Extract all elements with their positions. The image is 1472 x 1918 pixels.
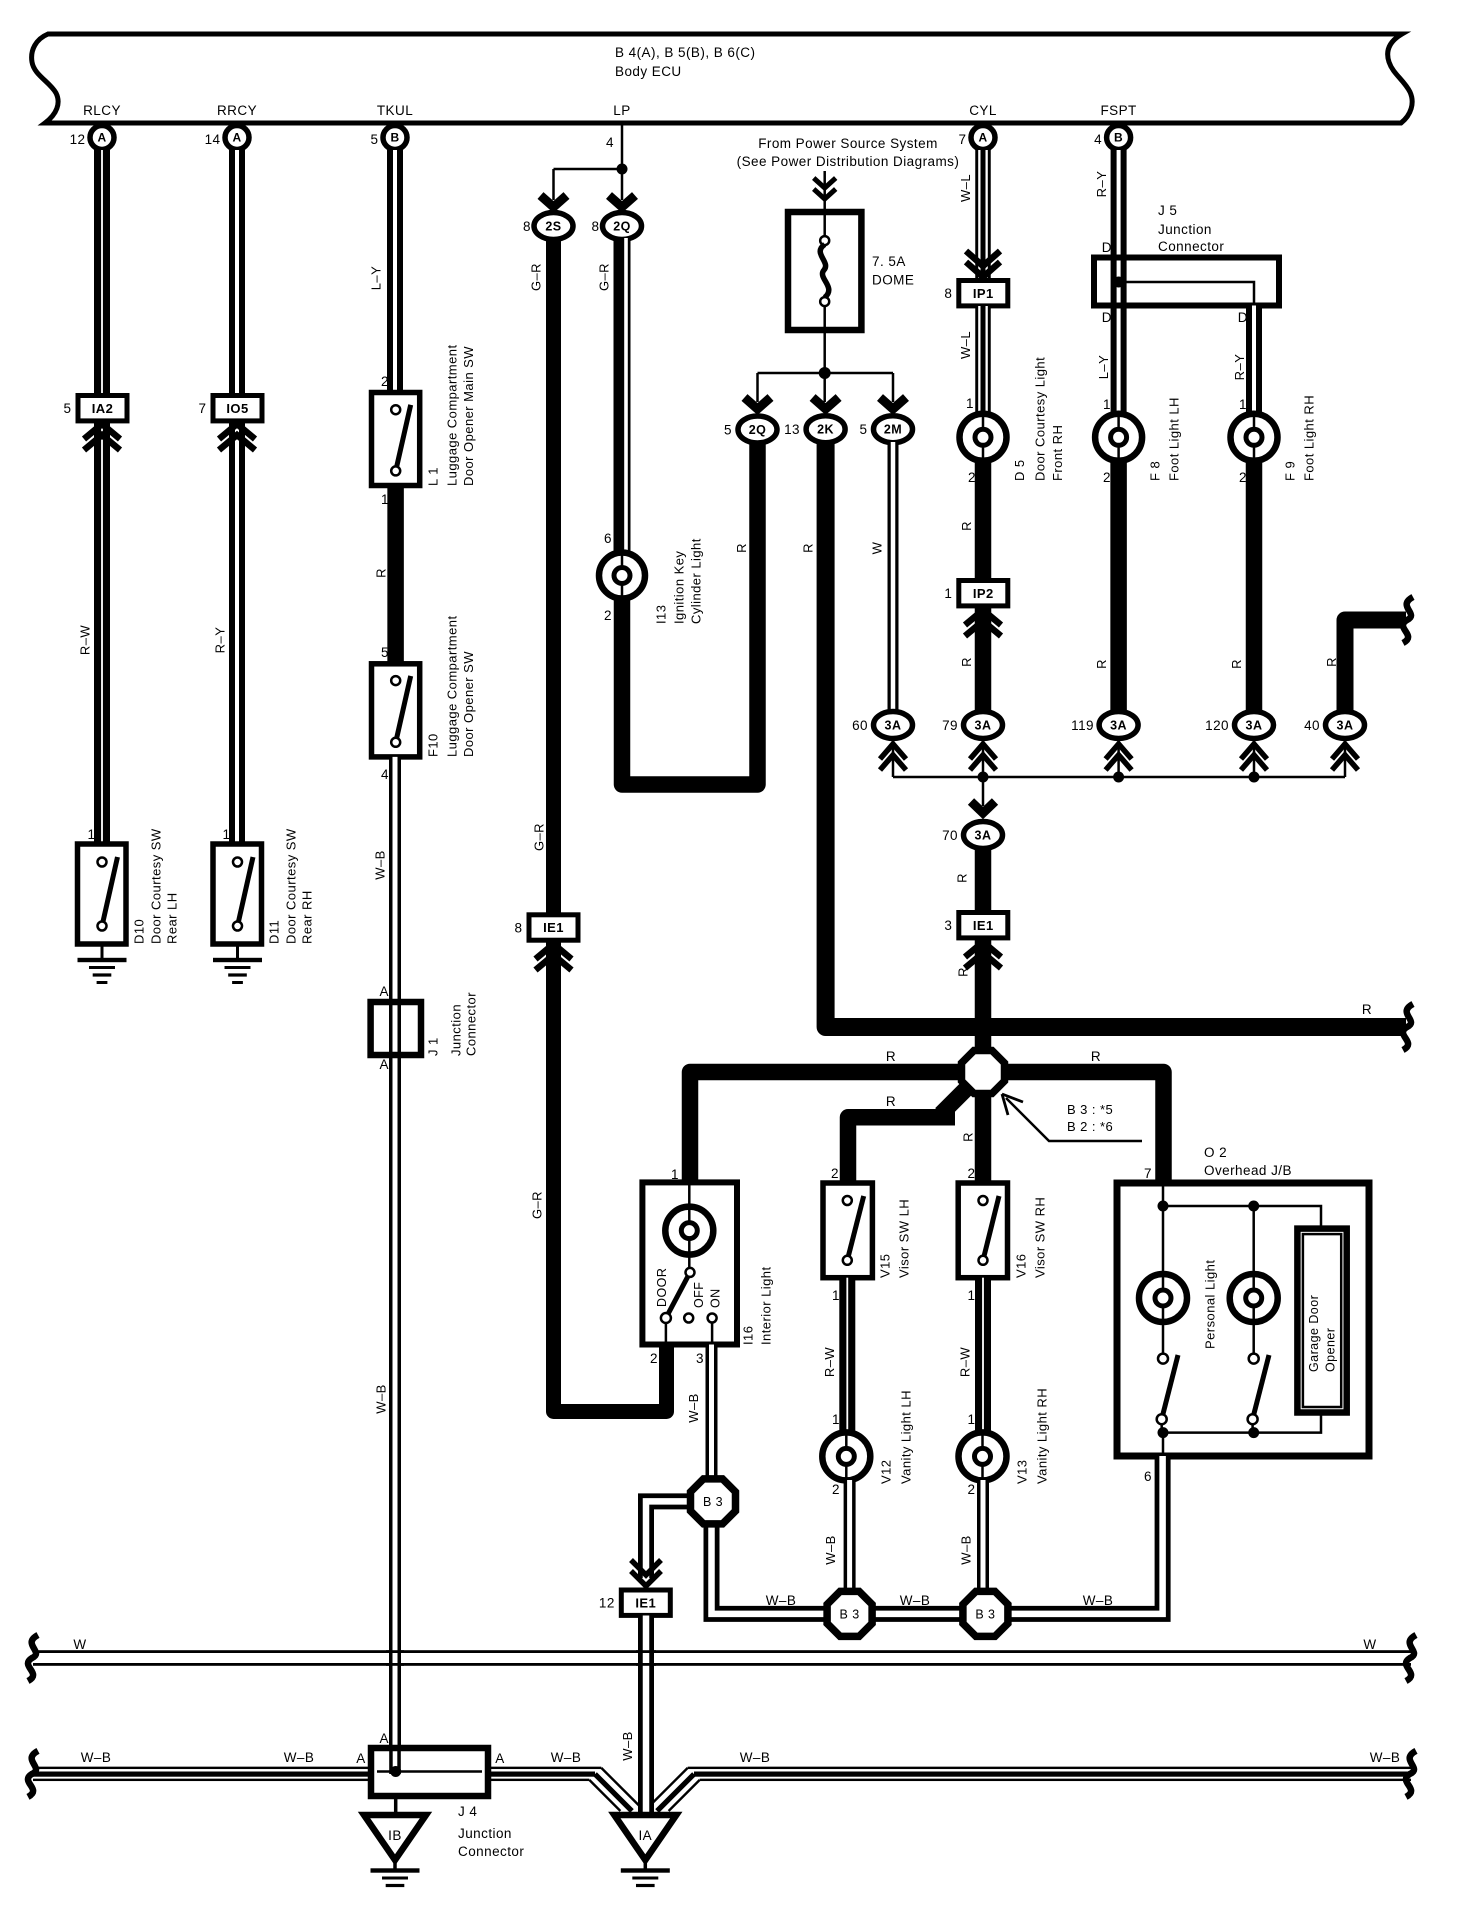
svg-text:J 1: J 1 (425, 1037, 440, 1056)
svg-text:13: 13 (784, 422, 800, 437)
wire W-B IE1 pin12 to IA (638, 1616, 654, 1814)
leader arrow to splice (1006, 1098, 1142, 1141)
svg-text:W–B: W–B (620, 1731, 635, 1761)
svg-text:Visor SW LH: Visor SW LH (896, 1199, 911, 1278)
wire LP drop (621, 125, 624, 169)
svg-text:R: R (886, 1049, 896, 1064)
svg-text:R: R (1091, 1049, 1101, 1064)
node rail dot 79 (978, 772, 989, 783)
node J4 dot (390, 1766, 401, 1777)
svg-text:F 8: F 8 (1147, 461, 1162, 481)
svg-text:2Q: 2Q (749, 423, 767, 437)
svg-text:R: R (959, 657, 974, 667)
svg-text:Rear RH: Rear RH (299, 890, 314, 944)
arrow into IO5 (219, 424, 255, 450)
arrow into IE1 pin12 (631, 1560, 661, 1586)
svg-text:2: 2 (604, 608, 612, 623)
R 40 squiggle (1403, 597, 1413, 643)
svg-text:V16: V16 (1013, 1254, 1028, 1278)
wire W-B V13 to B3 (977, 1480, 989, 1592)
connector 3A pin 120 (1235, 712, 1274, 739)
svg-text:Overhead J/B: Overhead J/B (1204, 1163, 1292, 1178)
wire D11 to ground (236, 944, 239, 960)
svg-text:B 3: B 3 (703, 1495, 723, 1509)
switch D11 Door Courtesy SW Rear RH (213, 844, 262, 944)
component I16 Interior Light box (642, 1182, 737, 1344)
svg-text:OFF: OFF (692, 1282, 706, 1308)
svg-text:Vanity Light RH: Vanity Light RH (1034, 1388, 1049, 1484)
svg-text:Connector: Connector (458, 1844, 524, 1859)
ground below D10 (78, 958, 127, 962)
svg-text:2Q: 2Q (613, 219, 631, 233)
svg-text:1: 1 (968, 1288, 976, 1303)
svg-text:ON: ON (708, 1288, 722, 1308)
lamp V12 Vanity Light LH (822, 1432, 870, 1480)
wire R F8 to 3A119 (1110, 459, 1127, 712)
switch I16 DOOR OFF ON (666, 1272, 690, 1318)
svg-text:FSPT: FSPT (1100, 103, 1136, 118)
svg-text:1: 1 (944, 586, 952, 601)
svg-text:2M: 2M (884, 423, 902, 437)
node O2 dot bottom mid (1248, 1427, 1259, 1438)
svg-text:2: 2 (1103, 470, 1111, 485)
connector 2K (806, 416, 845, 443)
svg-text:7. 5A: 7. 5A (872, 254, 906, 269)
svg-text:A: A (978, 131, 987, 145)
arrow into IE1 pin3 (965, 942, 1001, 968)
lamp D5 Door Courtesy Light Front RH (960, 414, 1007, 461)
wire J4 internal (377, 1770, 482, 1773)
svg-text:8: 8 (523, 219, 531, 234)
svg-text:F10: F10 (425, 733, 440, 757)
switch F10 Luggage Compartment Door Opener SW (372, 664, 420, 757)
svg-text:TKUL: TKUL (377, 103, 413, 118)
wire R F9 to 3A120 (1246, 459, 1263, 712)
wire O2 internal top bus (1162, 1183, 1165, 1353)
svg-text:W–B: W–B (372, 850, 387, 880)
connector 2M (874, 416, 913, 443)
svg-text:From Power Source System: From Power Source System (758, 136, 938, 151)
svg-text:D 5: D 5 (1012, 459, 1027, 481)
svg-text:IE1: IE1 (543, 920, 564, 935)
arrow from power source (814, 178, 836, 199)
wire G-R 2Q to I13 (614, 238, 631, 553)
svg-text:R: R (1362, 1002, 1372, 1017)
svg-text:R: R (1094, 659, 1109, 669)
connector 3A pin 60 (874, 712, 913, 739)
svg-text:Door Courtesy Light: Door Courtesy Light (1032, 357, 1047, 481)
svg-text:IA: IA (638, 1828, 652, 1843)
wire R 40 3A elbow (1345, 620, 1406, 712)
connector IE1 pin12 (621, 1590, 670, 1615)
svg-text:5: 5 (860, 422, 868, 437)
arrow into IP1 (966, 251, 1000, 277)
svg-text:A: A (232, 131, 241, 145)
connector 3A pin 70 (964, 822, 1003, 849)
connector IO5 (213, 396, 262, 421)
wire W-B ground rail right (688, 1767, 1411, 1769)
wire R splice lower-left branch to V15 (941, 1085, 970, 1114)
svg-text:IB: IB (388, 1828, 402, 1843)
svg-text:1: 1 (1103, 397, 1111, 412)
connector 3A pin 40 (1326, 712, 1365, 739)
component O2 Overhead J/B box (1117, 1183, 1369, 1456)
wire L-Y J5 to F8 (1111, 306, 1127, 415)
wire W-B F10 to J4 (389, 757, 401, 1747)
svg-text:Junction: Junction (448, 1004, 463, 1056)
arrow into 2Q pin5 (745, 398, 771, 410)
svg-text:1: 1 (966, 396, 974, 411)
svg-text:5: 5 (381, 645, 389, 660)
switch L1 Luggage Compartment Door Opener Main SW (372, 393, 420, 486)
wire R-W from RLCY to IA2 and D10 (94, 150, 110, 844)
arrow into IA2 (84, 424, 120, 450)
svg-text:RLCY: RLCY (83, 103, 121, 118)
arrow into 2S (541, 196, 567, 208)
arrow into 3A 119 (1106, 744, 1132, 770)
svg-text:CYL: CYL (969, 103, 997, 118)
svg-text:R: R (960, 1132, 975, 1142)
svg-text:2K: 2K (817, 423, 834, 437)
svg-text:W–L: W–L (958, 331, 973, 359)
wire D10 to ground (101, 944, 104, 960)
wire W-L IP1 to D5 (975, 306, 991, 414)
wire fuse to splice (823, 330, 826, 373)
lamp F8 Foot Light LH (1095, 414, 1142, 461)
node O2 dot top mid (1248, 1201, 1259, 1212)
svg-text:Connector: Connector (463, 992, 478, 1056)
node rail dot 120 (1249, 772, 1260, 783)
svg-text:R–W: R–W (957, 1347, 972, 1378)
lamp O2 personal light RH (1230, 1274, 1278, 1322)
svg-text:R: R (886, 1094, 896, 1109)
arrow into IE1 pin8 (536, 944, 572, 970)
node O2 dot top left (1158, 1201, 1169, 1212)
switch O2 lamp1 (1158, 1354, 1168, 1364)
svg-text:6: 6 (604, 531, 612, 546)
wire O2 lamp2 drop (1252, 1206, 1255, 1353)
svg-text:W–B: W–B (766, 1593, 797, 1608)
svg-text:W–B: W–B (900, 1593, 931, 1608)
svg-text:IE1: IE1 (635, 1595, 656, 1610)
svg-text:Junction: Junction (458, 1826, 512, 1841)
wire patch W rail at IE1 wire (636, 1650, 656, 1653)
svg-text:IO5: IO5 (226, 401, 248, 416)
svg-text:D10: D10 (131, 919, 146, 944)
wire R-Y J5 to F9 (1246, 306, 1262, 415)
svg-text:7: 7 (959, 132, 967, 147)
wire R-Y from RRCY to IO5 and D11 (229, 150, 245, 844)
svg-text:W–L: W–L (958, 174, 973, 202)
lamp I16 interior (665, 1207, 713, 1255)
wire J5 internal (1119, 282, 1254, 306)
node O2 dot bottom left (1158, 1427, 1169, 1438)
svg-text:A: A (97, 131, 106, 145)
svg-text:Foot Light RH: Foot Light RH (1301, 395, 1316, 481)
pin 4 circle B FSPT (1107, 126, 1131, 150)
wire R splice right branch to O2 (1007, 1072, 1164, 1183)
arrow into 3A 40 (1332, 744, 1358, 770)
svg-text:RRCY: RRCY (217, 103, 257, 118)
wire R IP2 to 3A79 (975, 606, 992, 712)
svg-text:Connector: Connector (1158, 239, 1224, 254)
wire G-R 2S down to interior light (554, 238, 667, 1412)
svg-text:1: 1 (88, 827, 96, 842)
wire stub below 3A 40 (1344, 738, 1347, 777)
svg-text:R: R (734, 543, 749, 553)
wire rail to 3A70 (982, 777, 985, 806)
wire I16 pins internal (666, 1322, 712, 1345)
component Garage Door Opener box (1297, 1229, 1346, 1413)
svg-text:8: 8 (515, 921, 523, 936)
lamp F9 Foot Light RH (1231, 414, 1278, 461)
svg-text:B: B (390, 131, 399, 145)
svg-text:12: 12 (599, 1596, 615, 1611)
svg-text:A: A (356, 1751, 365, 1766)
splice B3 right (963, 1591, 1008, 1636)
svg-text:IE1: IE1 (973, 918, 994, 933)
wire 3A common rail (893, 776, 1345, 779)
connector 3A pin 79 (964, 712, 1003, 739)
svg-text:B 3 : *5: B 3 : *5 (1067, 1102, 1113, 1117)
wire O2 internal bottom bus (1162, 1424, 1253, 1433)
connector IP1 (959, 281, 1008, 306)
svg-text:A: A (380, 1731, 389, 1746)
svg-text:B 4(A), B 5(B), B 6(C): B 4(A), B 5(B), B 6(C) (615, 45, 755, 60)
wire R D5 to IP2 (975, 459, 992, 581)
svg-text:IP2: IP2 (973, 586, 994, 601)
svg-text:3A: 3A (885, 718, 902, 732)
svg-text:Garage Door: Garage Door (1307, 1295, 1321, 1372)
svg-text:G–R: G–R (596, 263, 611, 291)
svg-text:R: R (959, 521, 974, 531)
svg-text:Personal Light: Personal Light (1202, 1260, 1217, 1349)
svg-text:Door Courtesy SW: Door Courtesy SW (148, 828, 163, 944)
svg-text:W: W (73, 1637, 86, 1652)
svg-text:Front RH: Front RH (1050, 425, 1065, 481)
node fuse branch dot (819, 367, 831, 379)
svg-text:L–Y: L–Y (368, 266, 383, 290)
svg-text:B: B (1114, 131, 1123, 145)
svg-text:G–R: G–R (529, 1191, 544, 1219)
svg-text:Door Opener SW: Door Opener SW (461, 651, 476, 757)
svg-text:14: 14 (205, 132, 221, 147)
wire W-B I16 pin3 to B3 (706, 1345, 718, 1479)
svg-text:3: 3 (696, 1351, 704, 1366)
svg-text:LP: LP (613, 103, 630, 118)
svg-text:1: 1 (223, 827, 231, 842)
svg-text:V15: V15 (877, 1254, 892, 1278)
svg-text:B 2 : *6: B 2 : *6 (1067, 1119, 1113, 1134)
splice B3 upper (691, 1479, 736, 1524)
svg-text:Foot Light LH: Foot Light LH (1166, 397, 1181, 481)
wire R 2K elbow to right edge (826, 442, 1406, 1027)
connector IE1 pin3 (959, 913, 1008, 938)
svg-text:R: R (373, 568, 388, 578)
W rail right squiggle (1406, 1635, 1416, 1681)
svg-text:L 1: L 1 (425, 467, 440, 486)
wire patch W rail at TKUL (386, 1650, 404, 1653)
arrow into 3A 60 (880, 744, 906, 770)
svg-text:Vanity Light LH: Vanity Light LH (898, 1390, 913, 1484)
pin 12 circle A RLCY (90, 126, 114, 150)
svg-text:2S: 2S (545, 219, 561, 233)
svg-text:Body ECU: Body ECU (615, 64, 682, 79)
svg-text:8: 8 (592, 219, 600, 234)
svg-text:R–Y: R–Y (1094, 171, 1109, 198)
svg-text:I13: I13 (653, 605, 668, 624)
svg-text:DOME: DOME (872, 273, 914, 288)
svg-text:3A: 3A (1110, 718, 1127, 732)
lamp V13 Vanity Light RH (959, 1432, 1007, 1480)
svg-text:B 3: B 3 (975, 1607, 995, 1621)
svg-text:Luggage Compartment: Luggage Compartment (444, 344, 459, 486)
W-B rail left squiggle (28, 1751, 38, 1797)
svg-text:W–B: W–B (1083, 1593, 1114, 1608)
svg-text:1: 1 (1239, 397, 1247, 412)
svg-text:2: 2 (832, 1482, 840, 1497)
wire fuse branch (758, 373, 894, 402)
wire from power source (823, 171, 826, 212)
svg-text:Junction: Junction (1158, 222, 1212, 237)
svg-text:1: 1 (968, 1412, 976, 1427)
wire W-B ground rail left (33, 1767, 601, 1769)
ground below IA (644, 1858, 648, 1870)
connector IE1 pin8 (529, 915, 578, 940)
svg-text:Door Opener Main SW: Door Opener Main SW (461, 346, 476, 486)
svg-text:4: 4 (381, 767, 389, 782)
wire stub below 3A 119 (1117, 738, 1120, 777)
svg-text:G–R: G–R (528, 263, 543, 291)
svg-text:DOOR: DOOR (655, 1268, 669, 1307)
svg-text:4: 4 (1094, 132, 1102, 147)
switch O2 lamp2 (1249, 1354, 1259, 1364)
svg-text:W–B: W–B (373, 1384, 388, 1414)
svg-text:Rear LH: Rear LH (164, 892, 179, 944)
svg-text:W–B: W–B (1370, 1750, 1401, 1765)
wire J4 to IB (394, 1796, 398, 1815)
connector 2Q (603, 213, 642, 240)
svg-text:2: 2 (650, 1351, 658, 1366)
svg-text:W–B: W–B (81, 1750, 112, 1765)
svg-text:R: R (1324, 657, 1339, 667)
svg-text:120: 120 (1205, 718, 1229, 733)
svg-text:2: 2 (831, 1166, 839, 1181)
svg-text:IP1: IP1 (973, 286, 994, 301)
svg-text:79: 79 (942, 718, 958, 733)
wire R I13 to 2Q pin5 (622, 442, 758, 785)
wire W 2M to 3A (888, 442, 899, 712)
svg-text:O 2: O 2 (1204, 1145, 1227, 1160)
wire W-B B3 row (712, 1456, 1163, 1614)
svg-text:G–R: G–R (531, 823, 546, 851)
connector IB triangle (364, 1815, 426, 1860)
svg-text:W–B: W–B (551, 1750, 582, 1765)
wire R-W V15 to V12 (839, 1278, 855, 1433)
arrow into 2M (880, 398, 906, 410)
svg-text:V12: V12 (878, 1460, 893, 1484)
arrow into 3A 120 (1241, 744, 1267, 770)
pin 7 circle A CYL (971, 126, 995, 150)
svg-text:3A: 3A (975, 718, 992, 732)
svg-text:A: A (380, 984, 389, 999)
svg-text:R: R (800, 543, 815, 553)
svg-text:V13: V13 (1014, 1460, 1029, 1484)
svg-text:4: 4 (606, 135, 614, 150)
svg-text:(See Power Distribution Diagra: (See Power Distribution Diagrams) (737, 154, 960, 169)
R wire right squiggle (1403, 1004, 1413, 1050)
wire LP branch (554, 169, 623, 200)
wire L-Y TKUL to L1 (387, 150, 403, 393)
connector 2Q pin5 (738, 416, 777, 443)
Body ECU bus outline (32, 34, 1413, 123)
svg-text:12: 12 (70, 132, 86, 147)
connector 3A pin 119 (1099, 712, 1138, 739)
wire I16 internal top (688, 1182, 691, 1272)
svg-text:R: R (955, 967, 970, 977)
connector IA triangle (614, 1815, 676, 1860)
svg-text:Interior Light: Interior Light (758, 1266, 773, 1345)
wire W ground rail (33, 1650, 1411, 1653)
svg-text:1: 1 (832, 1412, 840, 1427)
svg-text:W: W (869, 541, 884, 554)
wire W-L CYL to IP1 (975, 150, 991, 278)
arrow into 2Q (609, 196, 635, 208)
node LP branch dot (617, 164, 628, 175)
svg-text:5: 5 (371, 132, 379, 147)
svg-text:W–B: W–B (284, 1750, 315, 1765)
switch V15 Visor SW LH (823, 1183, 872, 1278)
arrow into 3A 79 (970, 744, 996, 770)
lamp O2 personal light LH (1139, 1274, 1187, 1322)
svg-text:3A: 3A (1246, 718, 1263, 732)
svg-text:Luggage Compartment: Luggage Compartment (444, 615, 459, 757)
connector IA2 (78, 396, 127, 421)
svg-text:R: R (954, 873, 969, 883)
svg-text:5: 5 (724, 423, 732, 438)
wire W-B V12 to B3 (844, 1480, 856, 1592)
svg-text:2: 2 (381, 374, 389, 389)
svg-text:3: 3 (944, 918, 952, 933)
svg-text:W: W (1363, 1637, 1376, 1652)
svg-text:W–B: W–B (740, 1750, 771, 1765)
wire R splice bottom branch to V16 (975, 1096, 992, 1183)
svg-text:W–B: W–B (823, 1535, 838, 1565)
svg-text:D11: D11 (266, 920, 281, 944)
svg-text:B 3: B 3 (840, 1607, 860, 1621)
wire W-B B3 to IE1 pin12 (646, 1501, 688, 1578)
wire R L1 to F10 (387, 486, 404, 664)
svg-text:W–B: W–B (686, 1393, 701, 1423)
pin 5 circle B TKUL (383, 126, 407, 150)
junction connector J5 (1094, 258, 1279, 306)
svg-text:3A: 3A (1337, 718, 1354, 732)
svg-text:I16: I16 (740, 1326, 755, 1345)
W rail left squiggle (28, 1635, 38, 1681)
wire R-Y FSPT to J5 (1111, 150, 1127, 306)
svg-text:IA2: IA2 (92, 401, 114, 416)
svg-text:70: 70 (942, 828, 958, 843)
switch V16 Visor SW RH (958, 1183, 1007, 1278)
svg-text:A: A (380, 1057, 389, 1072)
svg-text:R: R (1229, 659, 1244, 669)
wire stub below 3A 120 (1253, 738, 1256, 777)
wire R splice left branch to I16 (690, 1072, 959, 1183)
svg-text:R–Y: R–Y (212, 627, 227, 654)
svg-text:7: 7 (199, 401, 207, 416)
connector IP2 (959, 581, 1008, 606)
junction connector J1 (371, 1002, 421, 1055)
